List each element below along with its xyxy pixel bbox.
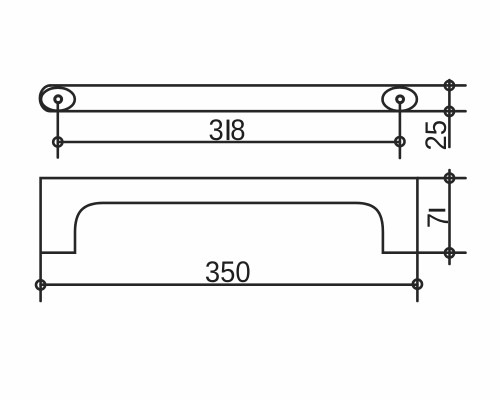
- label 71 digit 1: [429, 209, 446, 212]
- marker 71 top: [445, 174, 454, 183]
- marker 71 bottom: [445, 248, 454, 257]
- mounting boss ellipse left: [41, 88, 75, 111]
- label 318 digit 1: [227, 120, 230, 141]
- svg-text:350: 350: [205, 256, 251, 289]
- front view outline: [41, 178, 466, 301]
- marker 318 right: [395, 137, 404, 146]
- marker 350 left: [36, 280, 45, 289]
- svg-text:25: 25: [420, 120, 453, 151]
- svg-text:3: 3: [208, 114, 223, 147]
- dimension line 25 vertical: [448, 80, 451, 147]
- mounting hole right: [397, 96, 404, 103]
- dimension line 318: [58, 141, 400, 144]
- extension line from right hole center: [399, 104, 402, 158]
- front view right extension to 350 line: [416, 253, 419, 301]
- mounting boss ellipse right: [383, 87, 417, 111]
- marker 25 bottom: [445, 107, 454, 116]
- svg-text:7: 7: [422, 213, 455, 228]
- top view bar left rounded cap: [40, 85, 50, 111]
- marker 318 left: [53, 137, 62, 146]
- label 350: [205, 256, 251, 289]
- dimension line 350: [41, 283, 418, 286]
- label 318 digit 8: [230, 114, 245, 147]
- top view bar bottom edge: [50, 110, 465, 113]
- top view bar top edge: [50, 84, 465, 87]
- marker 25 top: [445, 81, 454, 90]
- marker 350 right: [413, 280, 422, 289]
- label 25: [420, 120, 453, 151]
- label 318 digit 3: [208, 114, 223, 147]
- mounting hole left: [55, 96, 62, 103]
- front view top edge extension: [417, 177, 465, 180]
- label 71 digit 7: [422, 213, 455, 228]
- extension line from left hole center: [56, 104, 59, 157]
- dimension line 71 vertical: [448, 170, 451, 264]
- svg-text:8: 8: [230, 114, 245, 147]
